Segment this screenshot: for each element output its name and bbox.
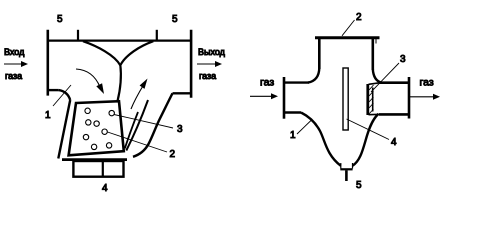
top horizontal wall bbox=[47, 39, 192, 41]
bottom-left bowl wall bbox=[301, 113, 341, 166]
svg-text:2: 2 bbox=[170, 149, 176, 160]
top flange right lip bbox=[375, 39, 377, 44]
outlet flange bbox=[408, 77, 411, 119]
hopper right outer wall bbox=[133, 93, 173, 157]
inlet duct fillet bbox=[59, 90, 70, 100]
hopper right inner wall bbox=[125, 112, 138, 149]
inlet duct bottom wall bbox=[47, 89, 59, 91]
gas in arrow bbox=[250, 93, 278, 99]
bracket hatch bbox=[369, 85, 374, 114]
left stub tick bbox=[77, 30, 79, 41]
legs divider bbox=[102, 161, 104, 177]
top-left fillet bbox=[308, 68, 319, 83]
svg-text:2: 2 bbox=[356, 12, 362, 23]
base plate bbox=[62, 158, 127, 161]
downward flow arrow (inlet side) bbox=[76, 69, 104, 94]
hopper left wall bbox=[58, 100, 70, 159]
outlet flow arrow bbox=[197, 61, 222, 67]
svg-text:5: 5 bbox=[356, 180, 362, 191]
leader to label 1 (right figure) bbox=[297, 120, 312, 135]
leader line to label 3 bbox=[114, 115, 173, 129]
neck left wall bbox=[318, 39, 321, 69]
right stub tick bbox=[156, 30, 158, 41]
neck right wall bbox=[371, 39, 374, 70]
center dividing wall bbox=[117, 65, 120, 102]
right outer wall vertical bbox=[190, 30, 193, 98]
svg-text:4: 4 bbox=[391, 137, 397, 148]
left inner curve bbox=[83, 41, 120, 65]
leader to label 4 (right figure) bbox=[347, 119, 390, 140]
svg-text:5: 5 bbox=[172, 14, 178, 25]
bottom stub right edge bbox=[352, 163, 354, 169]
left outer wall vertical bbox=[46, 30, 49, 96]
leader to label 3 (right figure) bbox=[371, 63, 399, 92]
bottom stub bar bbox=[340, 168, 352, 170]
svg-text:1: 1 bbox=[45, 110, 51, 121]
top flange left lip bbox=[318, 39, 320, 44]
svg-text:газа: газа bbox=[5, 71, 22, 81]
bottom stub left edge bbox=[340, 163, 342, 169]
left arm bottom wall bbox=[284, 111, 301, 113]
leader line to label 2 bbox=[108, 132, 168, 152]
svg-text:5: 5 bbox=[57, 14, 63, 25]
filter ring circles bbox=[83, 108, 114, 149]
orifice bracket inner line bbox=[372, 88, 374, 112]
top-right fillet bbox=[373, 69, 382, 83]
svg-text:3: 3 bbox=[400, 54, 406, 65]
bracket top connector bbox=[369, 83, 381, 85]
outlet cone bottom wall bbox=[379, 113, 409, 116]
left arm top wall bbox=[284, 81, 309, 83]
hopper right middle wall bbox=[126, 100, 148, 151]
orifice bracket outer bar bbox=[366, 84, 369, 115]
diaphragm plate bbox=[343, 68, 348, 130]
svg-text:3: 3 bbox=[177, 124, 183, 135]
svg-text:газ: газ bbox=[260, 77, 274, 89]
filter box frame bbox=[69, 101, 124, 155]
bottom stub stem bbox=[345, 170, 348, 181]
outlet cone top wall bbox=[379, 81, 409, 84]
outlet duct bottom wall bbox=[173, 92, 192, 94]
support legs box bbox=[73, 161, 123, 177]
top flange bar bbox=[315, 36, 380, 39]
svg-text:газа: газа bbox=[199, 71, 216, 81]
svg-text:4: 4 bbox=[102, 183, 108, 193]
label 2 leader (right figure) bbox=[342, 20, 355, 36]
svg-text:1: 1 bbox=[290, 130, 296, 141]
left arm flange bbox=[283, 77, 286, 119]
svg-text:газ: газ bbox=[420, 77, 434, 89]
bracket bottom connector bbox=[369, 113, 381, 115]
inlet flow arrow bbox=[4, 61, 28, 67]
svg-text:Выход: Выход bbox=[198, 47, 226, 57]
bottom-right bowl wall bbox=[353, 114, 379, 166]
right inner curve bbox=[120, 41, 153, 65]
upward flow arrow (outlet side) bbox=[131, 79, 148, 110]
leader line to label 1 bbox=[53, 85, 71, 106]
svg-text:Вход: Вход bbox=[4, 47, 25, 57]
gas out arrow bbox=[410, 94, 441, 100]
